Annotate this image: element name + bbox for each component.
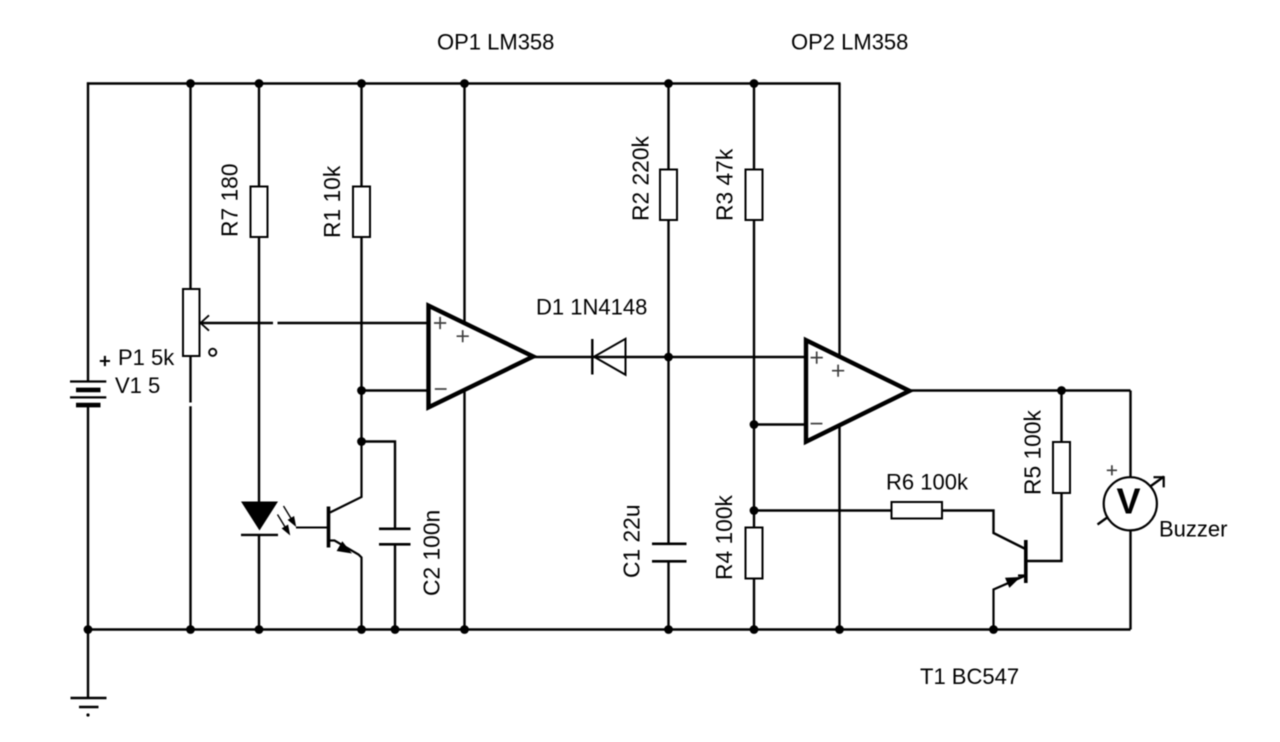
potentiometer P1 wiper arrow barbs xyxy=(201,315,210,330)
junction C1 bottom rail xyxy=(664,625,673,634)
svg-text:OP2 LM358: OP2 LM358 xyxy=(791,30,908,55)
diode D1 triangle xyxy=(594,339,626,375)
op-amp OP2 inverting input minus mark xyxy=(811,423,823,425)
svg-text:R2 220k: R2 220k xyxy=(628,135,654,221)
phototransistor collector xyxy=(330,442,362,513)
wire P1 bottom upper part xyxy=(189,355,191,403)
wire OP1 power rail xyxy=(463,84,465,630)
svg-text:T1 BC547: T1 BC547 xyxy=(920,664,1019,689)
junction R7 top rail xyxy=(255,79,264,88)
junction OP2 power bottom rail xyxy=(835,625,844,634)
wire R2 to C1 top xyxy=(667,219,669,544)
junction T1 emitter bottom rail xyxy=(989,625,998,634)
op-amp OP1 noninverting input plus mark xyxy=(434,317,446,329)
svg-text:R5 100k: R5 100k xyxy=(1020,409,1046,495)
wire R2 top xyxy=(667,84,669,171)
wire battery column bottom xyxy=(87,406,89,630)
wire R6 to T1 base xyxy=(942,511,1025,549)
svg-text:R4 100k: R4 100k xyxy=(711,494,737,580)
buzzer meter arrow shaft xyxy=(1098,477,1165,525)
wire P1 top xyxy=(189,84,191,291)
junction LED bottom rail xyxy=(255,625,264,634)
junction OP2 inverting input node xyxy=(750,420,759,429)
op-amp U1 OP1 triangle xyxy=(429,306,534,408)
op-amp OP2 positive supply plus mark xyxy=(832,365,844,377)
op-amp OP1 positive supply plus mark xyxy=(457,330,469,342)
wire R7 to LED xyxy=(258,236,260,502)
wire OP1 output through D1 to OP2 noninverting input xyxy=(533,356,806,358)
wire C2 to bottom rail xyxy=(394,544,396,630)
wire R4 node to R6 xyxy=(754,509,892,511)
capacitor C2 plates xyxy=(379,529,411,545)
phototransistor emitter arrowhead xyxy=(337,541,352,553)
light arrow 2 xyxy=(278,515,288,532)
transistor T1 emitter xyxy=(994,576,1025,630)
junction OP1 inverting input node xyxy=(357,386,366,395)
wire node A to C2 top xyxy=(362,442,396,530)
potentiometer P1 terminal circle xyxy=(209,349,216,356)
junction R1 top rail xyxy=(357,79,366,88)
svg-text:V1 5: V1 5 xyxy=(115,373,160,398)
junction phototransistor emitter bottom rail xyxy=(357,625,366,634)
svg-text:R7 180: R7 180 xyxy=(217,163,243,237)
junction OP2 output R5 node xyxy=(1057,386,1066,395)
resistor R5 body xyxy=(1053,442,1070,493)
junction R2 top rail xyxy=(664,79,673,88)
transistor T1 bar xyxy=(1024,540,1028,583)
resistor R4 body xyxy=(746,528,763,579)
junction node A xyxy=(357,437,366,446)
wire R5 bottom to T1 collector xyxy=(1027,492,1062,561)
svg-text:R1 10k: R1 10k xyxy=(319,165,345,238)
resistor R7 body xyxy=(251,187,268,238)
wire P1 wiper to OP1 right of hop gap xyxy=(278,322,429,324)
svg-text:V: V xyxy=(1116,481,1140,522)
battery plus sign xyxy=(100,356,110,366)
junction battery bottom rail xyxy=(84,625,93,634)
svg-text:Buzzer: Buzzer xyxy=(1159,517,1227,542)
wire C1 to bottom rail xyxy=(667,562,669,630)
svg-text:R6 100k: R6 100k xyxy=(886,470,969,495)
wire R3 top xyxy=(753,84,755,171)
wire buzzer top xyxy=(1129,391,1131,481)
junction C2 bottom rail xyxy=(391,625,400,634)
phototransistor base wire xyxy=(296,527,329,529)
light arrow 1 xyxy=(284,506,294,523)
wire P1 wiper to OP1 left of hop gap xyxy=(200,322,273,324)
LED cathode bar xyxy=(241,534,278,536)
diode D1 cathode bar xyxy=(591,339,593,375)
junction R3 top rail xyxy=(750,79,759,88)
battery V1 plates xyxy=(70,382,106,406)
transistor T1 emitter arrowhead xyxy=(1005,577,1021,588)
wire P1 bottom lower part after hop gap xyxy=(189,406,191,629)
wire R1 bottom to node A xyxy=(360,236,362,442)
wire LED to bottom rail xyxy=(258,535,260,630)
buzzer meter circle xyxy=(1104,477,1157,530)
junction P1 top rail xyxy=(186,79,195,88)
resistor R6 body xyxy=(892,502,943,519)
wire OP2 output xyxy=(909,389,1131,391)
wire ground stem xyxy=(87,630,89,699)
LED of optocoupler filled triangle xyxy=(241,502,278,531)
op-amp U2 OP2 triangle xyxy=(806,340,910,442)
svg-text:D1 1N4148: D1 1N4148 xyxy=(536,295,647,320)
op-amp OP1 inverting input minus mark xyxy=(435,388,447,390)
junction OP1 power top rail xyxy=(460,79,469,88)
wire OP1 inverting input xyxy=(362,389,429,391)
wire buzzer bottom xyxy=(1129,528,1131,630)
op-amp OP2 noninverting input plus mark xyxy=(811,352,823,364)
junction D1 R2 C1 node xyxy=(664,353,673,362)
wire R7 top xyxy=(258,84,260,188)
junction R4 bottom rail xyxy=(750,625,759,634)
wire R5 top xyxy=(1060,391,1062,444)
junction P1 bottom rail xyxy=(186,625,195,634)
ground symbol xyxy=(71,698,107,707)
junction R4 R6 node xyxy=(750,506,759,515)
wire R4 to bottom rail xyxy=(753,578,755,630)
wire R3 to R4 xyxy=(753,219,755,528)
resistor R2 body xyxy=(660,170,677,221)
svg-text:C1 22u: C1 22u xyxy=(619,504,645,578)
junction OP1 power bottom rail xyxy=(460,625,469,634)
phototransistor emitter xyxy=(330,541,362,630)
resistor R1 body xyxy=(353,187,370,238)
wire OP2 inverting input xyxy=(754,423,806,425)
svg-text:R3 47k: R3 47k xyxy=(712,148,738,221)
capacitor C1 plates xyxy=(652,544,687,562)
wire OP2 power rail xyxy=(838,84,840,630)
svg-text:P1 5k: P1 5k xyxy=(118,345,175,370)
resistor R3 body xyxy=(746,170,763,221)
buzzer plus sign xyxy=(1107,465,1117,475)
phototransistor bar xyxy=(327,507,331,548)
wire R1 top xyxy=(360,84,362,188)
svg-text:OP1 LM358: OP1 LM358 xyxy=(437,29,554,54)
buzzer meter arrowhead barbs xyxy=(1154,476,1165,487)
wire battery column top xyxy=(87,82,89,381)
svg-text:C2 100n: C2 100n xyxy=(419,510,445,596)
wire bottom ground rail xyxy=(87,628,1131,630)
wire top supply rail xyxy=(87,82,841,84)
potentiometer P1 body xyxy=(183,289,200,356)
